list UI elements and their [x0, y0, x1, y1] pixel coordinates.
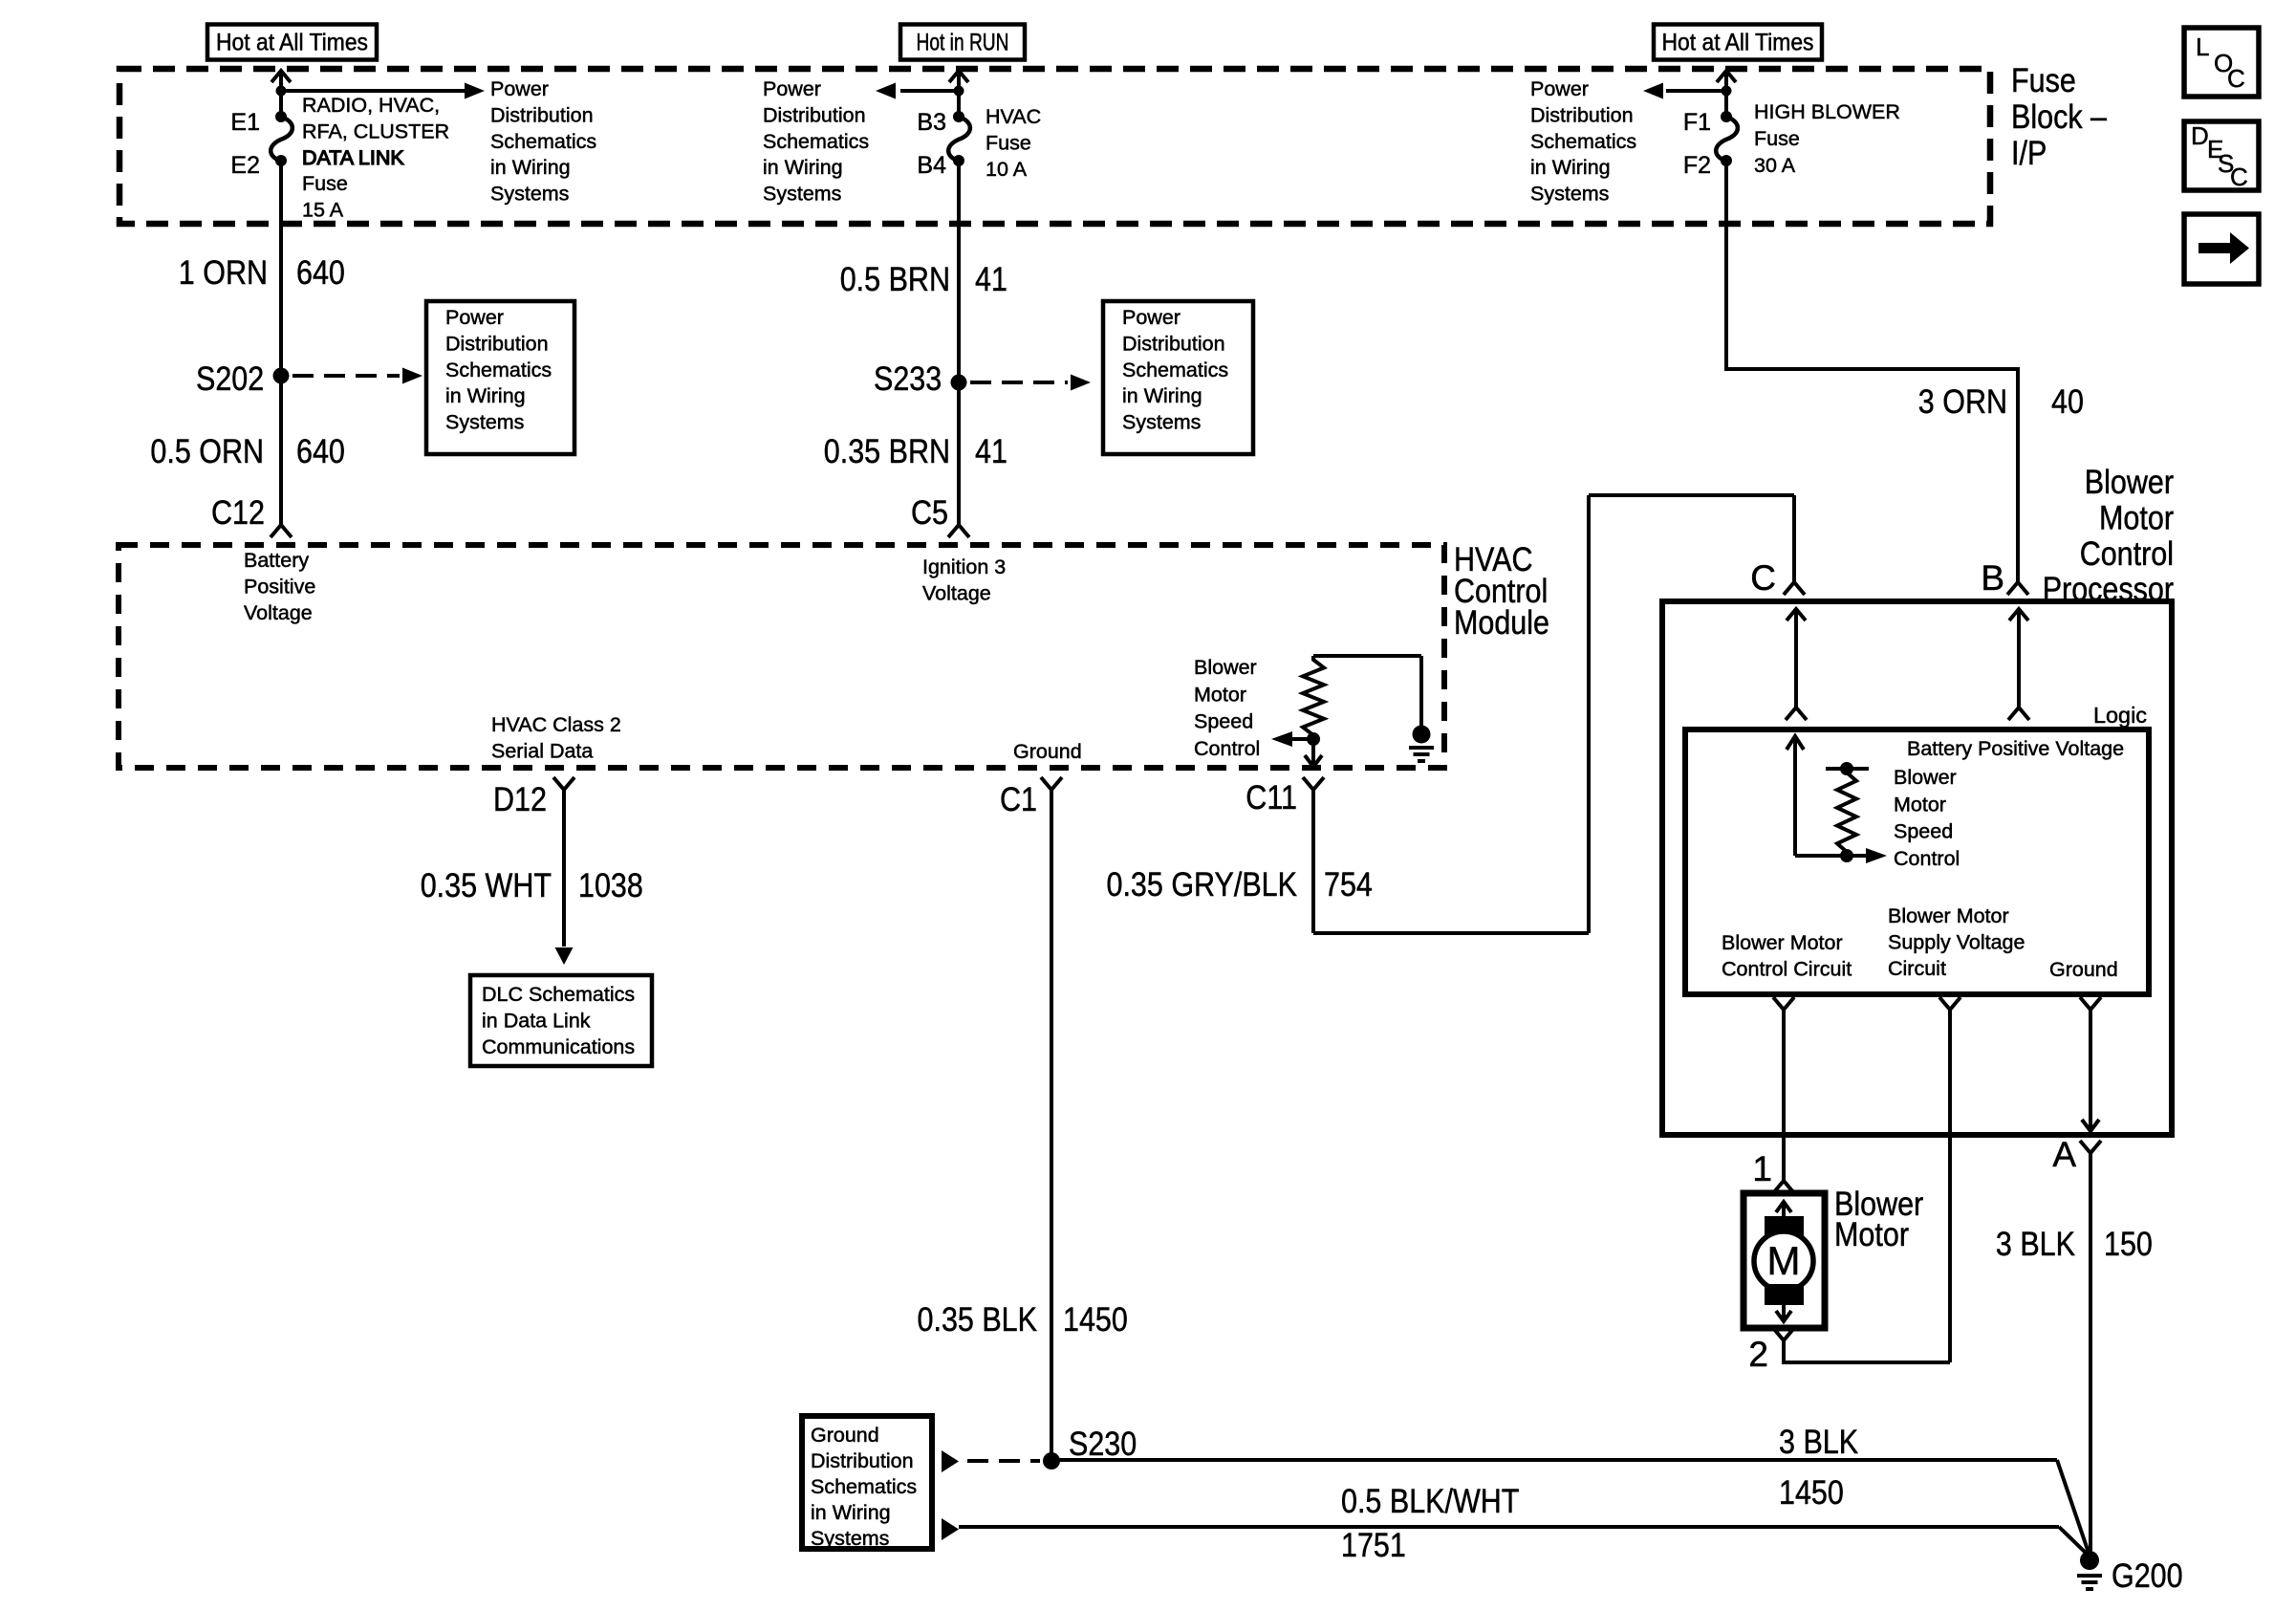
svg-text:Control: Control [2080, 534, 2174, 573]
svg-text:E1: E1 [230, 109, 260, 136]
svg-text:Motor: Motor [1834, 1215, 1909, 1253]
svg-text:S233: S233 [874, 359, 942, 398]
svg-text:Fuse: Fuse [2011, 61, 2076, 99]
svg-text:Power: Power [490, 77, 549, 100]
svg-text:F2: F2 [1683, 152, 1711, 179]
svg-text:Hot in RUN: Hot in RUN [917, 30, 1009, 56]
svg-text:40: 40 [2051, 382, 2084, 421]
svg-text:Distribution: Distribution [445, 332, 549, 355]
svg-text:3 ORN: 3 ORN [1918, 382, 2007, 421]
svg-text:Logic: Logic [2093, 703, 2147, 728]
svg-text:Battery: Battery [244, 549, 309, 572]
svg-text:1 ORN: 1 ORN [179, 253, 268, 292]
svg-text:Control Circuit: Control Circuit [1722, 957, 1852, 980]
svg-text:I/P: I/P [2011, 134, 2047, 172]
svg-text:0.35 WHT: 0.35 WHT [421, 866, 552, 904]
svg-text:Schematics: Schematics [1530, 130, 1636, 153]
svg-text:Motor: Motor [2099, 499, 2174, 537]
svg-text:in Wiring: in Wiring [490, 156, 571, 179]
svg-text:Distribution: Distribution [811, 1449, 914, 1472]
svg-text:C11: C11 [1245, 778, 1297, 816]
svg-text:Blower: Blower [1194, 656, 1257, 679]
svg-text:Speed: Speed [1894, 820, 1953, 843]
svg-text:Systems: Systems [763, 183, 841, 206]
svg-text:E2: E2 [230, 152, 260, 179]
svg-text:2: 2 [1748, 1335, 1768, 1374]
svg-text:in Wiring: in Wiring [811, 1501, 891, 1524]
svg-text:30 A: 30 A [1754, 154, 1796, 177]
svg-text:Schematics: Schematics [445, 359, 552, 381]
svg-text:1450: 1450 [1063, 1300, 1128, 1339]
svg-text:Fuse: Fuse [986, 131, 1031, 154]
svg-text:B4: B4 [917, 152, 946, 179]
svg-text:Control: Control [1194, 737, 1260, 760]
svg-text:Ground: Ground [1013, 740, 1082, 763]
svg-text:Power: Power [445, 306, 504, 329]
svg-text:Distribution: Distribution [763, 103, 866, 126]
svg-text:C: C [1750, 558, 1776, 598]
svg-text:D12: D12 [493, 780, 547, 818]
svg-text:Blower Motor: Blower Motor [1722, 931, 1843, 954]
svg-text:Hot at All Times: Hot at All Times [1662, 30, 1814, 56]
svg-text:in Wiring: in Wiring [1530, 156, 1611, 179]
svg-text:Ignition 3: Ignition 3 [922, 555, 1006, 578]
svg-text:0.35 BLK: 0.35 BLK [918, 1300, 1038, 1339]
svg-text:Fuse: Fuse [302, 172, 348, 195]
svg-text:1751: 1751 [1341, 1526, 1406, 1564]
svg-text:3 BLK: 3 BLK [1779, 1423, 1858, 1461]
svg-text:Power: Power [1530, 77, 1589, 100]
svg-text:A: A [2052, 1135, 2076, 1174]
svg-text:Systems: Systems [1122, 411, 1201, 434]
svg-text:41: 41 [975, 432, 1007, 470]
svg-text:Motor: Motor [1894, 793, 1946, 816]
svg-text:Systems: Systems [811, 1527, 889, 1550]
svg-text:C: C [2227, 64, 2245, 93]
svg-text:RFA, CLUSTER: RFA, CLUSTER [302, 120, 449, 142]
svg-text:C: C [2230, 163, 2248, 191]
svg-text:Blower Motor: Blower Motor [1888, 904, 2009, 927]
svg-text:Distribution: Distribution [1122, 332, 1225, 355]
svg-text:Power: Power [763, 77, 821, 100]
svg-text:Distribution: Distribution [1530, 103, 1634, 126]
svg-text:Battery Positive Voltage: Battery Positive Voltage [1907, 737, 2124, 760]
svg-text:M: M [1767, 1238, 1801, 1283]
svg-text:Schematics: Schematics [1122, 359, 1228, 381]
svg-text:754: 754 [1324, 865, 1373, 903]
svg-text:15 A: 15 A [302, 199, 344, 222]
svg-text:Voltage: Voltage [244, 601, 313, 624]
svg-text:C1: C1 [1000, 780, 1037, 818]
svg-text:640: 640 [296, 432, 345, 470]
svg-text:1450: 1450 [1779, 1473, 1844, 1512]
svg-text:150: 150 [2104, 1225, 2153, 1263]
svg-text:0.5 ORN: 0.5 ORN [150, 432, 264, 470]
svg-text:Block –: Block – [2011, 98, 2107, 136]
svg-text:G200: G200 [2112, 1557, 2183, 1595]
svg-text:Voltage: Voltage [922, 581, 991, 604]
svg-text:Motor: Motor [1194, 683, 1246, 706]
svg-text:Systems: Systems [445, 411, 524, 434]
svg-text:Schematics: Schematics [490, 130, 596, 153]
svg-text:S202: S202 [196, 359, 264, 398]
svg-text:in Wiring: in Wiring [445, 384, 526, 407]
svg-text:0.35 GRY/BLK: 0.35 GRY/BLK [1107, 865, 1298, 903]
svg-text:Positive: Positive [244, 575, 315, 598]
svg-text:Hot at All Times: Hot at All Times [216, 30, 368, 56]
svg-text:1: 1 [1752, 1149, 1772, 1188]
svg-text:Ground: Ground [2049, 958, 2118, 981]
svg-text:RADIO, HVAC,: RADIO, HVAC, [302, 94, 440, 117]
svg-text:Schematics: Schematics [811, 1475, 917, 1498]
svg-text:0.5 BRN: 0.5 BRN [840, 260, 950, 298]
svg-text:in Data Link: in Data Link [482, 1009, 591, 1032]
svg-text:S230: S230 [1069, 1425, 1137, 1463]
svg-text:10 A: 10 A [986, 158, 1028, 181]
svg-text:DATA LINK: DATA LINK [302, 146, 404, 169]
svg-text:B3: B3 [917, 109, 946, 136]
svg-text:640: 640 [296, 253, 345, 292]
svg-text:F1: F1 [1683, 109, 1711, 136]
svg-text:B: B [1981, 558, 2004, 598]
svg-text:0.35 BRN: 0.35 BRN [824, 432, 950, 470]
svg-text:Ground: Ground [811, 1424, 879, 1447]
svg-text:Distribution: Distribution [490, 103, 594, 126]
svg-text:DLC Schematics: DLC Schematics [482, 983, 635, 1006]
svg-text:HIGH BLOWER: HIGH BLOWER [1754, 100, 1900, 123]
svg-text:Serial Data: Serial Data [491, 739, 593, 762]
svg-text:Circuit: Circuit [1888, 957, 1946, 980]
svg-text:Fuse: Fuse [1754, 127, 1800, 150]
svg-text:Blower: Blower [1894, 766, 1957, 789]
svg-text:1038: 1038 [578, 866, 643, 904]
svg-text:HVAC Class 2: HVAC Class 2 [491, 713, 621, 736]
svg-text:in Wiring: in Wiring [763, 156, 843, 179]
svg-text:Power: Power [1122, 306, 1180, 329]
svg-text:Control: Control [1894, 847, 1960, 870]
svg-text:L: L [2196, 33, 2209, 61]
svg-text:C12: C12 [211, 493, 265, 532]
svg-text:3 BLK: 3 BLK [1996, 1225, 2075, 1263]
svg-text:0.5 BLK/WHT: 0.5 BLK/WHT [1341, 1482, 1519, 1520]
svg-text:Supply Voltage: Supply Voltage [1888, 930, 2025, 953]
svg-text:Module: Module [1454, 603, 1549, 642]
svg-text:Schematics: Schematics [763, 130, 869, 153]
svg-text:Systems: Systems [490, 183, 569, 206]
svg-text:in Wiring: in Wiring [1122, 384, 1202, 407]
svg-text:Communications: Communications [482, 1035, 635, 1058]
svg-text:Systems: Systems [1530, 183, 1609, 206]
svg-text:C5: C5 [911, 493, 948, 532]
svg-text:41: 41 [975, 260, 1007, 298]
svg-text:HVAC: HVAC [986, 105, 1041, 128]
svg-text:D: D [2191, 121, 2209, 150]
svg-text:Blower: Blower [2085, 463, 2174, 501]
svg-text:Speed: Speed [1194, 710, 1253, 733]
